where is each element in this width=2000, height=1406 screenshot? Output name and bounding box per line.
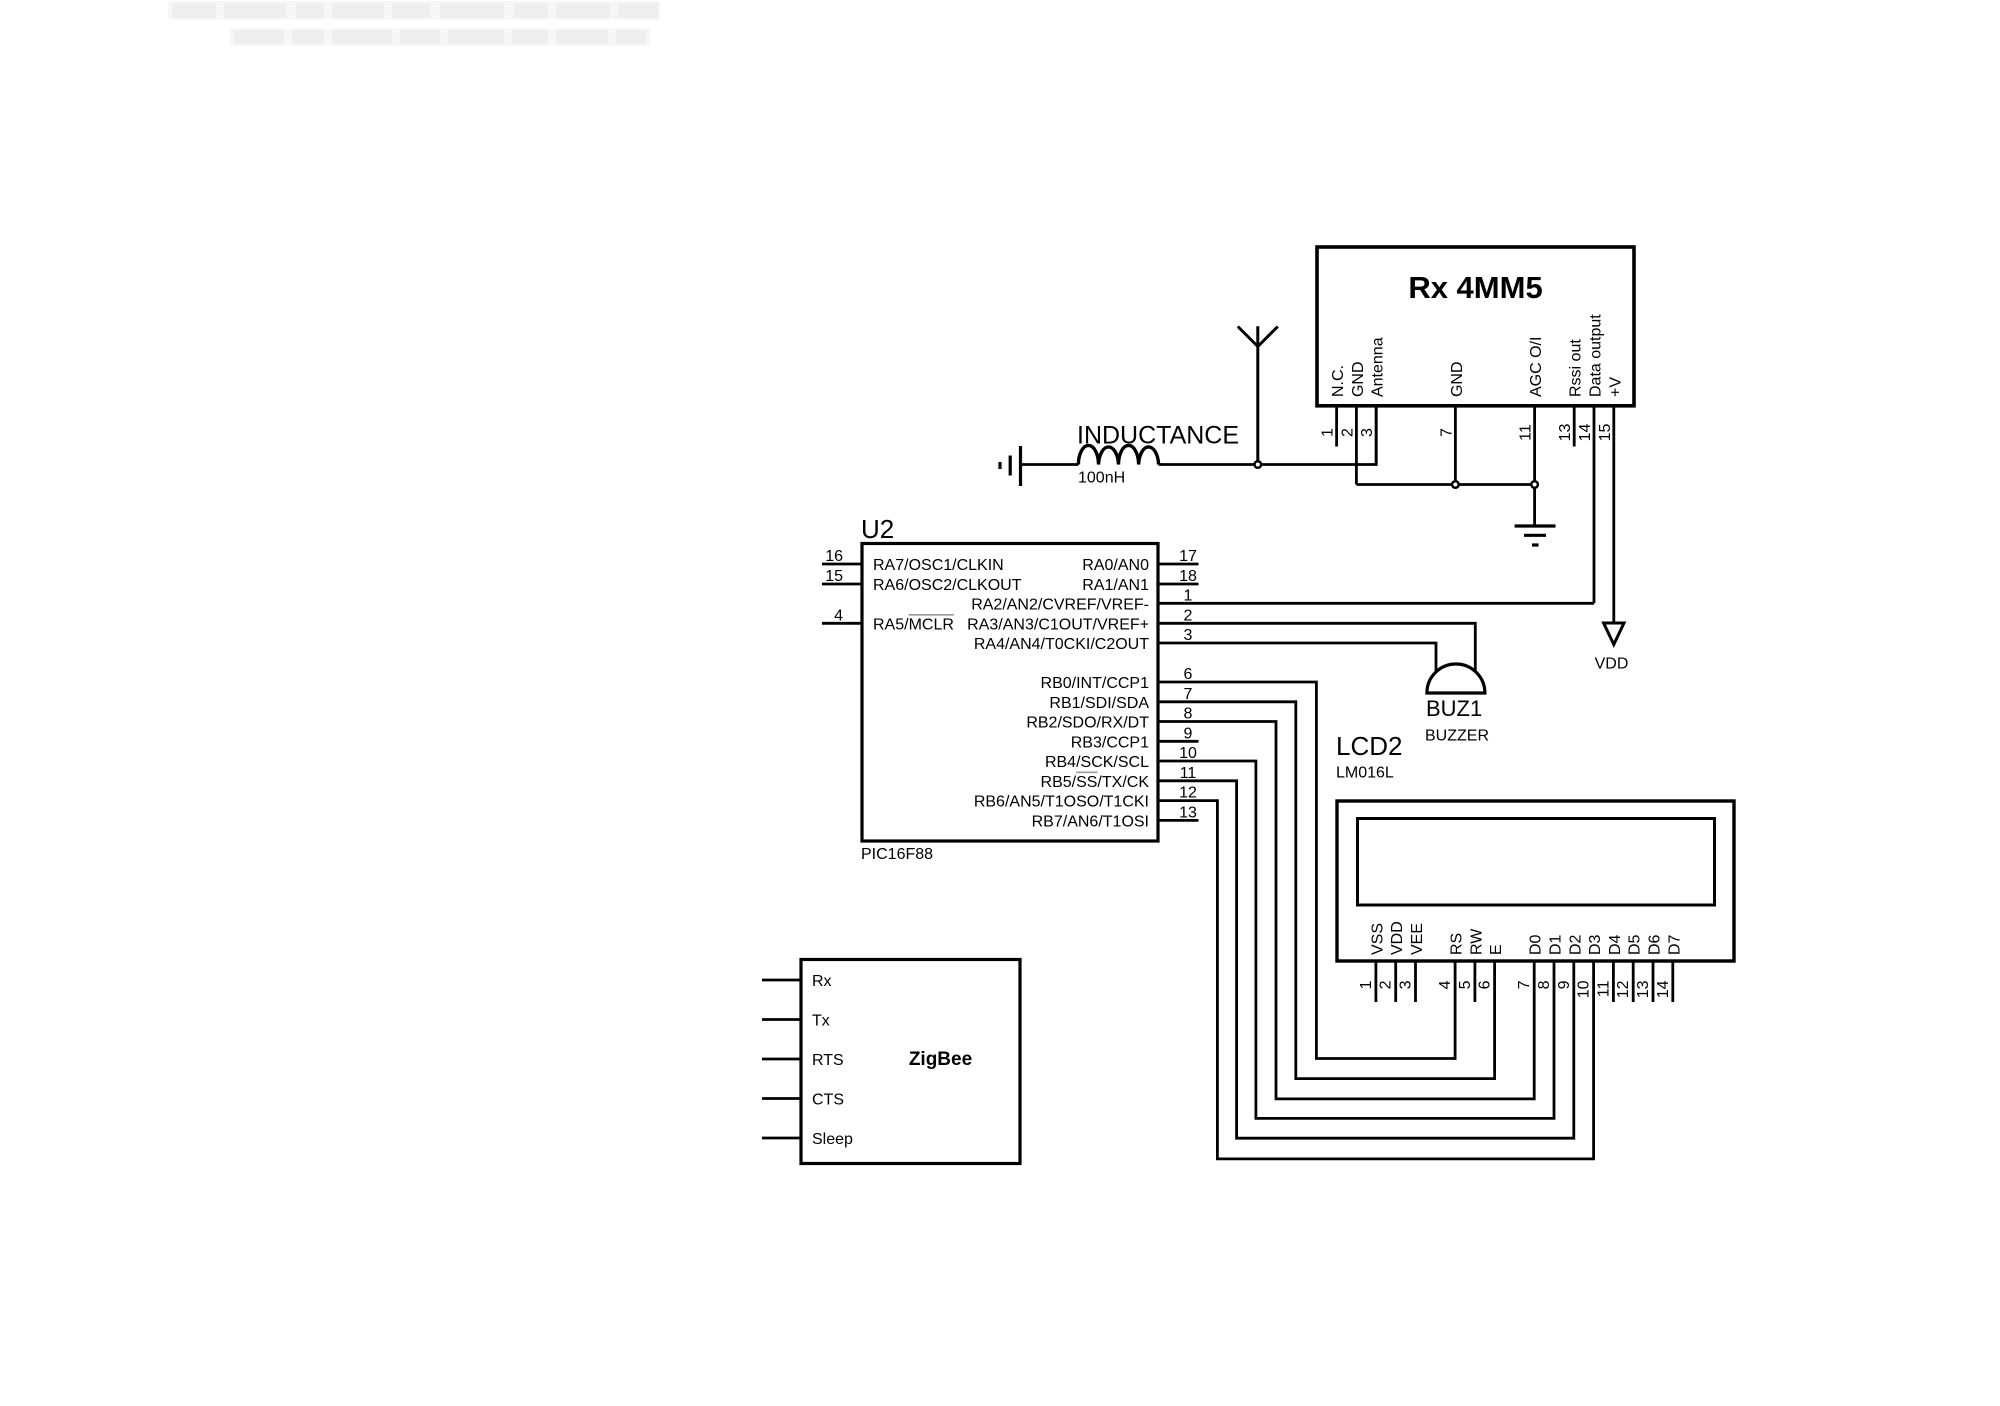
ZigBee pin Rx bbox=[762, 973, 832, 990]
svg-text:+V: +V bbox=[1607, 377, 1624, 397]
ground (below Rx module) bbox=[1515, 526, 1556, 545]
svg-text:10: 10 bbox=[1179, 745, 1197, 762]
svg-text:RB0/INT/CCP1: RB0/INT/CCP1 bbox=[1041, 675, 1150, 692]
svg-text:ZigBee: ZigBee bbox=[909, 1049, 972, 1070]
svg-text:Antenna: Antenna bbox=[1370, 337, 1387, 397]
svg-text:GND: GND bbox=[1350, 361, 1367, 397]
svg-text:6: 6 bbox=[1184, 666, 1193, 683]
svg-text:GND: GND bbox=[1449, 361, 1466, 397]
svg-text:4: 4 bbox=[1437, 980, 1454, 989]
svg-text:15: 15 bbox=[1597, 424, 1614, 442]
svg-text:E: E bbox=[1488, 944, 1505, 955]
svg-text:9: 9 bbox=[1556, 980, 1573, 989]
svg-text:3: 3 bbox=[1359, 428, 1376, 437]
svg-text:13: 13 bbox=[1635, 980, 1652, 998]
svg-text:14: 14 bbox=[1577, 424, 1594, 442]
U2 pin 9 RB3/CCP1 (stub) bbox=[1071, 725, 1199, 751]
svg-text:Rx: Rx bbox=[812, 973, 832, 990]
U2 pin 10 RB4/SCK/SCL bbox=[1045, 745, 1197, 771]
svg-text:RA5/MCLR: RA5/MCLR bbox=[873, 616, 954, 633]
svg-text:N.C.: N.C. bbox=[1330, 365, 1347, 397]
ground (left of inductor) bbox=[1000, 446, 1021, 486]
LCD pin 9 D2 bbox=[1556, 934, 1585, 989]
svg-text:2: 2 bbox=[1339, 428, 1356, 437]
svg-text:PIC16F88: PIC16F88 bbox=[861, 846, 933, 863]
svg-text:AGC O/I: AGC O/I bbox=[1528, 337, 1545, 397]
svg-text:2: 2 bbox=[1378, 980, 1395, 989]
svg-text:10: 10 bbox=[1576, 980, 1593, 998]
svg-text:12: 12 bbox=[1615, 980, 1632, 998]
Rx pin 1 N.C. bbox=[1320, 365, 1348, 447]
svg-text:D1: D1 bbox=[1548, 934, 1565, 955]
LCD pin 13 D6 bbox=[1635, 934, 1664, 1002]
svg-text:RA2/AN2/CVREF/VREF-: RA2/AN2/CVREF/VREF- bbox=[971, 597, 1149, 614]
LCD pin 7 D0 bbox=[1516, 934, 1545, 989]
faint header text artifact bbox=[168, 1, 660, 46]
svg-text:Tx: Tx bbox=[812, 1013, 830, 1030]
node: rail at pin 7 bbox=[1452, 481, 1459, 488]
wire Rx pin2/pin7/pin11 ground rail bbox=[1356, 485, 1534, 526]
LCD pin 12 D5 bbox=[1615, 934, 1644, 1002]
Rx pin 14 Data output bbox=[1577, 314, 1605, 604]
svg-text:RB3/CCP1: RB3/CCP1 bbox=[1071, 734, 1149, 751]
svg-text:RA7/OSC1/CLKIN: RA7/OSC1/CLKIN bbox=[873, 557, 1004, 574]
node: antenna junction bbox=[1255, 461, 1262, 468]
svg-text:RB4/SCK/SCL: RB4/SCK/SCL bbox=[1045, 754, 1149, 771]
svg-text:13: 13 bbox=[1179, 804, 1197, 821]
wire ground to inductor bbox=[1021, 463, 1079, 466]
svg-text:7: 7 bbox=[1438, 428, 1455, 437]
svg-text:RTS: RTS bbox=[812, 1052, 844, 1069]
wire U2 pin6 to LCD RS (pin4) bbox=[1158, 682, 1455, 1059]
svg-text:8: 8 bbox=[1536, 980, 1553, 989]
wire inductor to antenna node to Rx pin 3 bbox=[1159, 406, 1377, 465]
wire U2 pin7 to LCD E (pin6) bbox=[1158, 702, 1495, 1079]
U2 pin 18 RA1/AN1 bbox=[1082, 568, 1198, 594]
svg-text:D7: D7 bbox=[1666, 934, 1683, 955]
svg-text:RB2/SDO/RX/DT: RB2/SDO/RX/DT bbox=[1026, 715, 1149, 732]
svg-text:RA0/AN0: RA0/AN0 bbox=[1082, 557, 1149, 574]
wire Rx pin14 to U2 RA2 (pin1) bbox=[1158, 602, 1594, 605]
svg-text:6: 6 bbox=[1477, 980, 1494, 989]
ZigBee module box bbox=[801, 960, 1020, 1164]
svg-text:RA6/OSC2/CLKOUT: RA6/OSC2/CLKOUT bbox=[873, 577, 1022, 594]
U2 pin 13 RB7/AN6/T1OSI (stub) bbox=[1032, 804, 1199, 830]
svg-text:12: 12 bbox=[1179, 785, 1197, 802]
antenna AE1 bbox=[1238, 326, 1278, 464]
LCD pin 4 RS bbox=[1437, 933, 1466, 990]
U2 pin 4 RA5/MCLR (overline) bbox=[822, 607, 954, 633]
wire U2 pin10 to LCD D1 (pin8) bbox=[1158, 761, 1554, 1118]
buzzer BUZ1 bbox=[1425, 664, 1489, 745]
svg-text:RB1/SDI/SDA: RB1/SDI/SDA bbox=[1049, 695, 1149, 712]
svg-text:D6: D6 bbox=[1647, 934, 1664, 955]
svg-text:14: 14 bbox=[1655, 980, 1672, 998]
svg-text:13: 13 bbox=[1557, 424, 1574, 442]
svg-text:RB6/AN5/T1OSO/T1CKI: RB6/AN5/T1OSO/T1CKI bbox=[974, 794, 1149, 811]
Rx pin 11 AGC O/I bbox=[1518, 337, 1546, 485]
Rx pin 3 Antenna bbox=[1359, 337, 1387, 464]
svg-text:Rx 4MM5: Rx 4MM5 bbox=[1408, 270, 1542, 305]
svg-text:9: 9 bbox=[1184, 725, 1193, 742]
svg-text:D0: D0 bbox=[1528, 934, 1545, 955]
svg-text:D2: D2 bbox=[1567, 934, 1584, 955]
svg-text:17: 17 bbox=[1179, 548, 1197, 565]
LCD pin 1 VSS bbox=[1358, 923, 1387, 1002]
svg-text:CTS: CTS bbox=[812, 1092, 844, 1109]
wire U2 pin11 to LCD D2 (pin9) bbox=[1158, 781, 1574, 1138]
LCD pin 6 E bbox=[1477, 944, 1506, 989]
svg-text:RW: RW bbox=[1468, 928, 1485, 955]
svg-text:15: 15 bbox=[825, 568, 843, 585]
svg-text:INDUCTANCE: INDUCTANCE bbox=[1077, 422, 1239, 450]
LCD pin 3 VEE bbox=[1398, 923, 1427, 1002]
LCD pin 2 VDD bbox=[1378, 921, 1407, 1002]
svg-text:11: 11 bbox=[1518, 424, 1535, 441]
svg-text:RB5/SS/TX/CK: RB5/SS/TX/CK bbox=[1041, 774, 1150, 791]
LCD pin 5 RW bbox=[1457, 928, 1486, 1002]
power symbol VDD (arrow) bbox=[1604, 623, 1624, 645]
svg-text:RA1/AN1: RA1/AN1 bbox=[1082, 577, 1149, 594]
U2 pin 16 RA7/OSC1/CLKIN bbox=[822, 548, 1004, 574]
svg-text:Rssi out: Rssi out bbox=[1568, 339, 1585, 397]
ZigBee pin Tx bbox=[762, 1013, 830, 1030]
svg-text:5: 5 bbox=[1457, 980, 1474, 989]
svg-text:16: 16 bbox=[825, 548, 843, 565]
U2 pin 11 RB5/SS/TX/CK (overline SS) bbox=[1041, 765, 1197, 791]
wire U2 pin3 to buzzer left terminal bbox=[1158, 643, 1436, 672]
svg-text:7: 7 bbox=[1516, 980, 1533, 989]
wire U2 pin8 to LCD D0 (pin7) bbox=[1158, 722, 1534, 1099]
svg-text:4: 4 bbox=[834, 607, 843, 624]
svg-text:BUZZER: BUZZER bbox=[1425, 728, 1489, 745]
svg-text:RB7/AN6/T1OSI: RB7/AN6/T1OSI bbox=[1032, 813, 1149, 830]
Rx pin 7 GND bbox=[1438, 361, 1466, 484]
ZigBee pin RTS bbox=[762, 1052, 844, 1069]
svg-text:VDD: VDD bbox=[1389, 921, 1406, 955]
svg-text:RA4/AN4/T0CKI/C2OUT: RA4/AN4/T0CKI/C2OUT bbox=[974, 636, 1149, 653]
U2 pin 2 RA3/AN3/C1OUT/VREF+ bbox=[967, 607, 1192, 633]
Rx pin 2 GND bbox=[1339, 361, 1367, 484]
svg-text:1: 1 bbox=[1358, 980, 1375, 989]
LCD pin 8 D1 bbox=[1536, 934, 1565, 989]
svg-text:8: 8 bbox=[1184, 706, 1193, 723]
LCD pin 11 D4 bbox=[1595, 934, 1624, 1002]
svg-text:LCD2: LCD2 bbox=[1336, 731, 1402, 761]
svg-text:VDD: VDD bbox=[1595, 656, 1629, 673]
svg-text:1: 1 bbox=[1320, 428, 1337, 437]
svg-text:D4: D4 bbox=[1607, 934, 1624, 955]
Rx pin 13 Rssi out bbox=[1557, 339, 1585, 447]
LCD screen area bbox=[1358, 819, 1715, 906]
U2 pin 17 RA0/AN0 bbox=[1082, 548, 1198, 574]
svg-text:3: 3 bbox=[1398, 980, 1415, 989]
svg-text:U2: U2 bbox=[861, 514, 894, 544]
U2 pin 8 RB2/SDO/RX/DT bbox=[1026, 706, 1192, 732]
inductor 100nH "INDUCTANCE" bbox=[1078, 445, 1158, 464]
svg-text:11: 11 bbox=[1595, 980, 1612, 997]
svg-text:7: 7 bbox=[1184, 686, 1193, 703]
Rx 4MM5 receiver module box bbox=[1317, 247, 1634, 406]
svg-text:RS: RS bbox=[1449, 933, 1466, 955]
svg-text:Sleep: Sleep bbox=[812, 1131, 853, 1148]
wire U2 pin12 to LCD D3 (pin10) bbox=[1158, 801, 1594, 1159]
LCD pin 14 D7 bbox=[1655, 934, 1684, 1002]
ZigBee pin Sleep bbox=[762, 1131, 853, 1148]
svg-text:1: 1 bbox=[1184, 588, 1193, 605]
svg-text:3: 3 bbox=[1184, 627, 1193, 644]
U2 pin 3 RA4/AN4/T0CKI/C2OUT bbox=[974, 627, 1193, 653]
U2 pin 1 RA2/AN2/CVREF/VREF- bbox=[971, 588, 1192, 614]
svg-text:Data output: Data output bbox=[1588, 314, 1605, 397]
microcontroller U2 PIC16F88 bbox=[862, 544, 1158, 842]
svg-text:D3: D3 bbox=[1587, 934, 1604, 955]
svg-text:RA3/AN3/C1OUT/VREF+: RA3/AN3/C1OUT/VREF+ bbox=[967, 616, 1149, 633]
wire U2 pin2 to buzzer right terminal bbox=[1158, 623, 1475, 671]
svg-text:LM016L: LM016L bbox=[1336, 765, 1394, 782]
Rx pin 15 +V bbox=[1597, 377, 1625, 623]
svg-text:2: 2 bbox=[1184, 607, 1193, 624]
U2 pin 7 RB1/SDI/SDA bbox=[1049, 686, 1192, 712]
svg-text:VSS: VSS bbox=[1369, 923, 1386, 955]
U2 pin 12 RB6/AN5/T1OSO/T1CKI bbox=[974, 785, 1197, 811]
node: rail at pin 11 bbox=[1531, 481, 1538, 488]
svg-text:18: 18 bbox=[1179, 568, 1197, 585]
svg-text:100nH: 100nH bbox=[1078, 470, 1125, 487]
svg-text:BUZ1: BUZ1 bbox=[1426, 696, 1482, 721]
svg-text:VEE: VEE bbox=[1409, 923, 1426, 955]
ZigBee pin CTS bbox=[762, 1092, 844, 1109]
svg-text:11: 11 bbox=[1180, 765, 1197, 782]
U2 pin 6 RB0/INT/CCP1 bbox=[1041, 666, 1193, 692]
LCD pin 10 D3 bbox=[1576, 934, 1605, 998]
svg-text:D5: D5 bbox=[1627, 934, 1644, 955]
U2 pin 15 RA6/OSC2/CLKOUT bbox=[822, 568, 1022, 594]
LCD display LCD2 LM016L bbox=[1337, 801, 1734, 961]
